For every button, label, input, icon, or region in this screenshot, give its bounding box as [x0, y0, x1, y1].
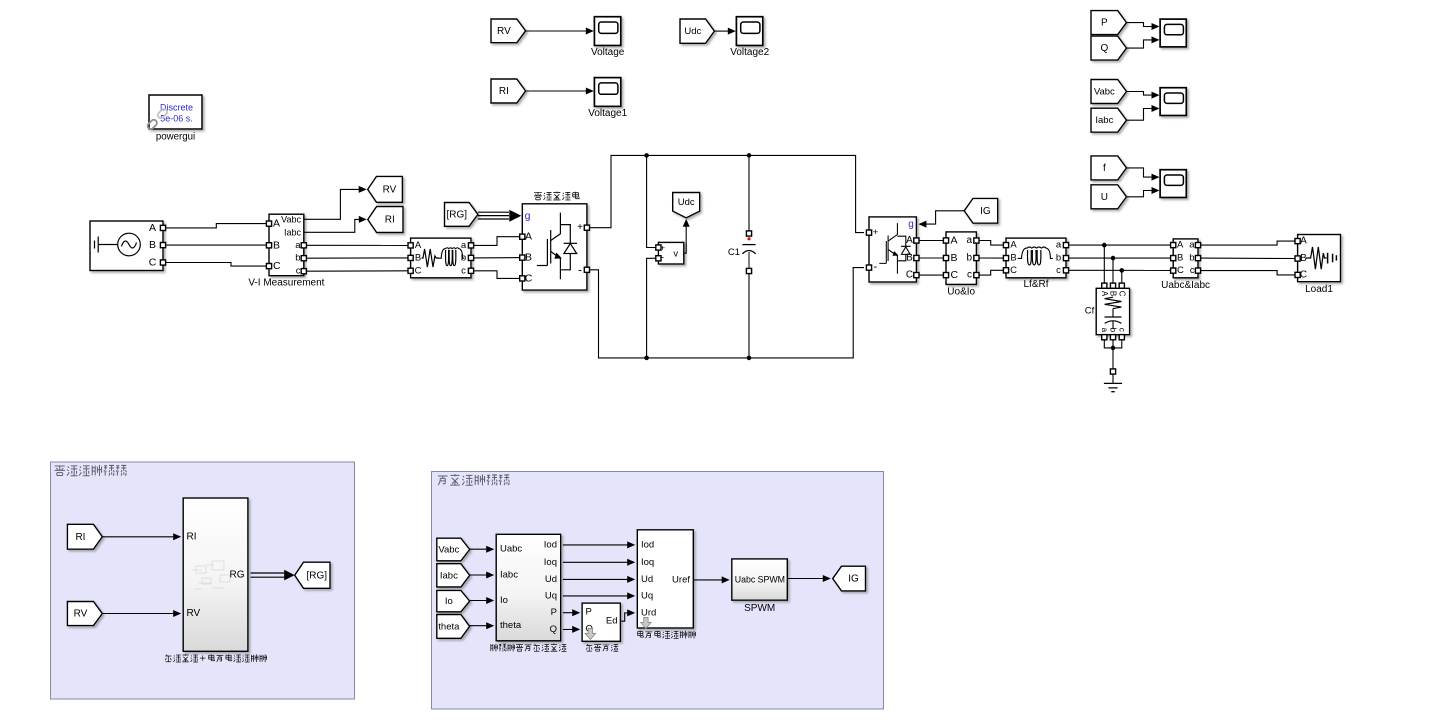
svg-text:Voltage2: Voltage2 — [730, 47, 769, 58]
wire phase C source to V-I — [166, 263, 267, 267]
svg-text:C: C — [149, 257, 157, 269]
svg-text:b: b — [295, 253, 300, 264]
from tag Io (control) — [437, 590, 470, 611]
wire b to Load1 B — [1201, 257, 1296, 259]
wire phase B source to V-I — [166, 244, 267, 246]
wire RI to subsystem — [102, 536, 174, 538]
svg-text:-: - — [873, 261, 877, 273]
svg-text:Udc: Udc — [678, 197, 695, 208]
svg-text:Ioq: Ioq — [544, 557, 557, 568]
svg-text:c: c — [1056, 265, 1061, 276]
svg-text:IG: IG — [980, 206, 991, 217]
scope Voltage — [591, 17, 625, 58]
from tag RV (top) — [491, 19, 526, 43]
svg-text:Iod: Iod — [641, 539, 654, 550]
wire IG to inverter gate — [925, 211, 964, 224]
svg-text:Q: Q — [1100, 43, 1108, 54]
capacitor C1 branch — [728, 153, 756, 360]
wire SPWM to goto IG — [788, 578, 824, 580]
svg-text:C: C — [1300, 269, 1307, 280]
wire from tag to 功率 subsystem — [470, 574, 488, 576]
svg-text:A: A — [906, 235, 913, 246]
svg-text:Ioq: Ioq — [641, 557, 654, 568]
node: top bus voltmeter tap — [647, 155, 656, 247]
svg-text:-: - — [578, 262, 582, 276]
wire RV to subsystem — [102, 613, 174, 615]
svg-text:Load1: Load1 — [1305, 284, 1333, 295]
wire c RLC to rectifier C — [474, 271, 520, 279]
wire c V-I to RLC branch — [306, 270, 408, 272]
wire phase a bus Lf&Rf to Uabc&Iabc — [1069, 244, 1171, 246]
svg-text:RI: RI — [187, 531, 197, 542]
svg-text:Ud: Ud — [545, 574, 557, 585]
svg-text:Iabc: Iabc — [500, 570, 518, 581]
svg-text:SPWM: SPWM — [744, 603, 775, 614]
V-I Measurement block — [248, 214, 324, 289]
wire Iabc to goto RI — [304, 219, 359, 232]
svg-text:B: B — [1010, 253, 1016, 264]
wire c to Load1 C — [1201, 271, 1296, 275]
wire Uo&Io a to Lf&Rf A — [979, 241, 1003, 246]
svg-text:Io: Io — [500, 595, 508, 606]
svg-text:Vabc: Vabc — [438, 545, 459, 556]
svg-text:RG: RG — [230, 570, 245, 581]
annotation area: rectifier control system panel — [51, 462, 355, 699]
wire inverter C to Uo&Io — [919, 274, 943, 276]
svg-text:Lf&Rf: Lf&Rf — [1023, 279, 1048, 290]
svg-text:Uabc: Uabc — [500, 544, 522, 555]
svg-text:a: a — [295, 240, 301, 251]
svg-text:b: b — [1189, 253, 1194, 264]
three-phase series RLC branch (Rs Ls) — [408, 238, 474, 278]
svg-text:C1: C1 — [728, 247, 740, 258]
svg-text:Uq: Uq — [641, 590, 653, 601]
svg-text:Udc: Udc — [684, 26, 701, 37]
wire a to Load1 A — [1201, 241, 1296, 245]
svg-text:Uref: Uref — [672, 574, 690, 585]
svg-text:+: + — [577, 222, 583, 233]
svg-text:g: g — [908, 219, 914, 230]
svg-text:theta: theta — [438, 621, 460, 632]
from tag Iabc — [1091, 108, 1127, 132]
svg-text:A: A — [525, 231, 532, 243]
svg-text:A: A — [951, 235, 958, 247]
svg-text:B: B — [273, 239, 280, 251]
scope for Vabc/Iabc — [1160, 88, 1186, 116]
svg-text:B: B — [415, 252, 421, 263]
rectifier block 整流变换器 (universal bridge) — [520, 192, 590, 291]
svg-text:Iabc: Iabc — [284, 227, 302, 237]
scope Voltage1 — [588, 78, 627, 119]
scope Voltage2 — [730, 17, 769, 58]
svg-text:RI: RI — [75, 532, 85, 543]
from tag P — [1091, 11, 1127, 35]
svg-text:C: C — [951, 269, 959, 281]
scope for P/Q — [1160, 19, 1186, 47]
svg-text:b: b — [966, 253, 972, 264]
tap wires down to Cf — [1103, 245, 1105, 283]
svg-text:P: P — [551, 607, 557, 618]
wire phase b bus — [1069, 257, 1171, 259]
svg-text:b: b — [1056, 253, 1061, 264]
subsystem 下垂方程 (droop equation) — [582, 603, 620, 651]
svg-text:A: A — [149, 222, 156, 234]
node: bottom bus voltmeter tap — [647, 258, 656, 358]
wire Ed to Urd — [621, 613, 628, 621]
svg-text:RI: RI — [499, 86, 509, 97]
from tag [RG] — [445, 203, 478, 227]
vector wire [RG] to rectifier gate — [478, 210, 521, 222]
svg-text:+: + — [873, 227, 879, 238]
wire Uo&Io c to Lf&Rf C — [979, 270, 1003, 275]
goto tag RI — [368, 207, 403, 233]
from tag Vabc (control) — [437, 538, 470, 561]
svg-text:[RG]: [RG] — [306, 570, 327, 581]
svg-text:a: a — [1056, 240, 1062, 251]
wire voltmeter to goto Udc — [684, 226, 686, 253]
wire a RLC to rectifier A — [474, 237, 520, 246]
from tag U — [1091, 185, 1127, 209]
svg-text:Iabc: Iabc — [1095, 115, 1113, 126]
svg-text:a: a — [1100, 328, 1109, 333]
goto tag [RG] — [295, 562, 330, 588]
wire b RLC to rectifier B — [474, 257, 520, 259]
vector wire RG to goto [RG] — [251, 570, 295, 581]
svg-text:Voltage: Voltage — [591, 47, 625, 58]
wire from tag to 功率 subsystem — [470, 548, 488, 550]
svg-text:Urd: Urd — [641, 607, 656, 618]
wire Vabc to goto RV — [304, 189, 359, 219]
svg-text:A: A — [1100, 291, 1109, 297]
svg-text:C: C — [525, 272, 533, 284]
subsystem 坐标变换+电压电流控制环 — [165, 498, 266, 662]
wire Uo&Io b to Lf&Rf B — [979, 257, 1003, 259]
svg-text:Uabc: Uabc — [735, 575, 756, 585]
svg-text:Voltage1: Voltage1 — [588, 108, 627, 119]
wire P to scope — [1127, 23, 1152, 27]
svg-text:C: C — [1010, 265, 1017, 276]
wire b V-I to RLC branch — [306, 257, 408, 259]
svg-text:a: a — [461, 240, 467, 251]
svg-text:RV: RV — [187, 608, 201, 619]
from tag Udc (top) — [680, 19, 714, 43]
svg-text:Iabc: Iabc — [440, 570, 458, 581]
svg-text:Uq: Uq — [545, 590, 557, 601]
svg-text:C: C — [1177, 265, 1184, 276]
inverter block (universal bridge) — [866, 217, 919, 282]
svg-text:c: c — [967, 270, 972, 281]
SPWM subsystem — [732, 559, 788, 614]
svg-text:A: A — [1177, 240, 1184, 251]
svg-text:C: C — [906, 270, 913, 281]
wires Cf outputs join to ground — [1104, 340, 1122, 348]
from tag IG (mirrored) — [964, 198, 998, 223]
svg-text:B: B — [1177, 253, 1183, 264]
from tag RV (control) — [67, 602, 102, 626]
subsystem 电压电流控制环 (voltage current control loop) — [637, 530, 695, 639]
wire phase c bus — [1069, 269, 1171, 271]
wire rectifier + to top DC bus — [590, 155, 865, 232]
svg-text:A: A — [1010, 240, 1017, 251]
wire Iabc to scope — [1127, 109, 1152, 121]
wire from tag to 功率 subsystem — [470, 625, 488, 627]
from tag theta (control) — [437, 615, 470, 639]
wire f to scope — [1127, 168, 1152, 177]
svg-text:RV: RV — [383, 184, 397, 195]
wire phase A source to V-I — [166, 224, 267, 228]
svg-text:B: B — [1109, 291, 1118, 296]
svg-text:C: C — [1117, 291, 1126, 297]
three-phase programmable voltage source — [90, 221, 166, 271]
goto tag IG — [833, 566, 866, 591]
from tag f — [1091, 156, 1127, 180]
svg-text:U: U — [1101, 192, 1108, 203]
wire Q to scope — [1127, 40, 1152, 48]
svg-text:Ud: Ud — [641, 574, 653, 585]
svg-text:[RG]: [RG] — [447, 209, 468, 220]
ground — [1104, 369, 1122, 392]
wire U to scope — [1127, 191, 1152, 197]
svg-text:A: A — [1300, 236, 1307, 247]
svg-text:c: c — [1190, 265, 1195, 276]
Cf filter capacitor block (rotated) — [1085, 283, 1130, 340]
wire RV to scope Voltage — [526, 30, 586, 32]
wire 功率 output to 电压 control block — [563, 544, 629, 546]
annotation area: inverter control system panel — [432, 472, 884, 710]
svg-text:Discrete: Discrete — [160, 103, 193, 113]
svg-text:a: a — [1189, 240, 1195, 251]
svg-text:Uabc&Iabc: Uabc&Iabc — [1161, 280, 1210, 291]
svg-text:f: f — [1103, 163, 1106, 174]
goto tag Udc (pointing down) — [673, 193, 700, 218]
svg-text:Uo&Io: Uo&Io — [947, 287, 975, 298]
Uabc&Iabc measurement block — [1161, 239, 1210, 291]
goto tag RV — [368, 176, 403, 202]
wire Uref to SPWM — [693, 579, 723, 581]
powergui block — [146, 95, 202, 142]
scope for f/U — [1160, 170, 1186, 198]
voltage measurement block (Udc) — [656, 242, 684, 264]
svg-text:P: P — [586, 607, 592, 618]
svg-text:g: g — [525, 210, 531, 222]
wire rectifier - to bottom DC bus — [590, 268, 865, 358]
wire Udc to scope Voltage2 — [714, 30, 728, 32]
wire 功率 output to 电压 control block — [563, 595, 629, 597]
wire P to 下垂方程 — [563, 612, 574, 614]
svg-text:IG: IG — [848, 574, 859, 585]
from tag Q — [1091, 36, 1127, 60]
svg-text:C: C — [415, 265, 422, 276]
svg-text:c: c — [1117, 328, 1126, 332]
svg-text:C: C — [273, 260, 281, 272]
from tag Vabc — [1091, 80, 1127, 104]
wire inverter A to Uo&Io — [919, 240, 943, 242]
svg-text:v: v — [673, 248, 678, 259]
svg-text:a: a — [966, 235, 972, 246]
svg-text:A: A — [415, 240, 422, 251]
svg-text:Iod: Iod — [544, 539, 557, 550]
subsystem 功率计算与坐标变换 — [491, 534, 567, 651]
svg-text:SPWM: SPWM — [758, 575, 785, 585]
svg-text:RV: RV — [497, 26, 511, 37]
wire RI to scope Voltage1 — [526, 90, 586, 92]
svg-text:B: B — [525, 252, 532, 264]
wire 功率 output to 电压 control block — [563, 578, 629, 580]
svg-text:V-I Measurement: V-I Measurement — [248, 278, 324, 289]
from tag Iabc (control) — [437, 564, 470, 587]
Lf&Rf filter inductor block — [1003, 238, 1068, 290]
from tag RI (control) — [67, 524, 102, 549]
Uo&Io measurement block — [943, 232, 979, 298]
svg-text:Ed: Ed — [606, 616, 618, 627]
svg-text:Vabc: Vabc — [281, 215, 301, 225]
wire Vabc to scope — [1127, 92, 1152, 96]
svg-text:RI: RI — [385, 215, 395, 226]
wire from tag to 功率 subsystem — [470, 600, 488, 602]
svg-text:B: B — [951, 252, 958, 264]
svg-text:P: P — [1101, 18, 1108, 29]
svg-text:A: A — [273, 218, 280, 230]
svg-text:B: B — [149, 239, 156, 251]
Load1 three-phase RLC load block — [1295, 235, 1341, 295]
wire 功率 output to 电压 control block — [563, 561, 629, 563]
from tag RI (top) — [491, 79, 526, 103]
svg-text:c: c — [296, 266, 301, 277]
wire a V-I to RLC branch — [306, 244, 408, 246]
wire Q to 下垂方程 — [563, 628, 574, 630]
svg-text:theta: theta — [500, 620, 522, 631]
svg-text:Vabc: Vabc — [1094, 87, 1115, 98]
svg-text:Q: Q — [550, 624, 557, 635]
svg-text:Cf: Cf — [1085, 306, 1095, 317]
svg-text:Io: Io — [445, 596, 453, 607]
svg-text:powergui: powergui — [156, 131, 195, 142]
wire inverter B to Uo&Io — [919, 257, 943, 259]
svg-text:c: c — [461, 265, 466, 276]
svg-text:RV: RV — [74, 609, 88, 620]
